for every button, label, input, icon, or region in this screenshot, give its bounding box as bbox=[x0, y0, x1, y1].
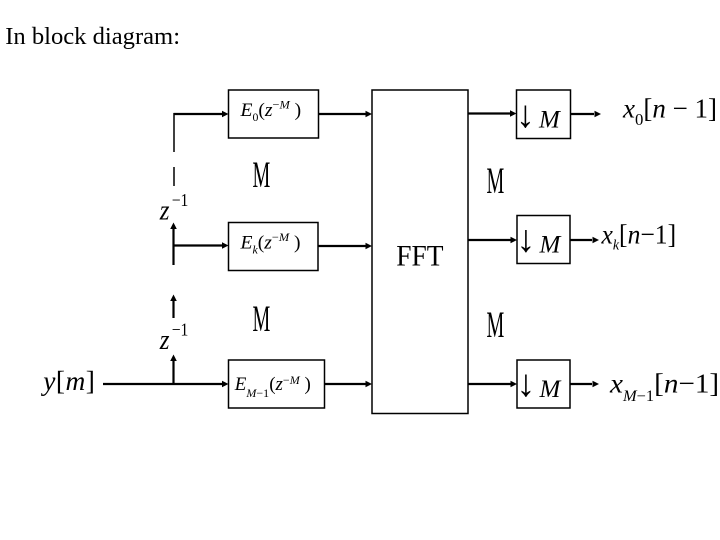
svg-text:M: M bbox=[487, 162, 505, 202]
wire: Ek feed horizontal bbox=[174, 242, 229, 249]
svg-text:M: M bbox=[253, 156, 271, 196]
wire: E0 to FFT bbox=[319, 111, 373, 118]
wire: FFT to downsample (row 1) bbox=[468, 110, 517, 117]
wire: FFT to downsample (row 3) bbox=[468, 381, 517, 388]
svg-text:M: M bbox=[539, 376, 562, 403]
wire: corner from vertical up to E0 feed bbox=[173, 113, 175, 152]
wire: input y[m] to EM-1 bbox=[103, 381, 229, 388]
svg-text:Ek(z−M ): Ek(z−M ) bbox=[239, 230, 300, 256]
wire: EM-1 to FFT bbox=[325, 381, 373, 388]
svg-text:y[m]: y[m] bbox=[40, 366, 95, 396]
svg-text:In block diagram:: In block diagram: bbox=[5, 23, 180, 50]
svg-text:M: M bbox=[253, 300, 271, 340]
svg-text:xk[n−1]: xk[n−1] bbox=[601, 219, 677, 254]
block downsample M (row 3) bbox=[517, 360, 571, 408]
svg-text:↓: ↓ bbox=[516, 94, 535, 136]
wire: Ek to FFT bbox=[318, 243, 372, 250]
svg-text:M: M bbox=[539, 232, 562, 259]
block EM-1(z^-M) bbox=[229, 360, 325, 408]
svg-text:↓: ↓ bbox=[517, 219, 536, 261]
wire: output arrow (row 2) bbox=[570, 237, 599, 244]
block FFT bbox=[372, 90, 468, 414]
arrow up to z^-1 (upper) bbox=[170, 223, 177, 230]
wire: FFT to downsample (row 2) bbox=[468, 237, 517, 244]
wire: E0 feed horizontal bbox=[174, 111, 229, 118]
svg-text:M: M bbox=[538, 107, 561, 134]
arrow up from input junction to z^-1 (lower) bbox=[170, 355, 177, 385]
svg-text:M: M bbox=[487, 306, 505, 346]
wire: output arrow (row 1) bbox=[571, 111, 602, 118]
block Ek(z^-M) bbox=[229, 223, 319, 271]
block E0(z^-M) bbox=[229, 90, 319, 138]
svg-text:↓: ↓ bbox=[517, 363, 536, 405]
block downsample M (row 1) bbox=[516, 90, 571, 139]
arrow up from z^-1 (lower) toward Ek branch bbox=[170, 295, 177, 319]
block downsample M (row 2) bbox=[517, 216, 571, 264]
wire: dashed segment above z^-1 (upper) bbox=[173, 151, 175, 186]
svg-text:E0(z−M ): E0(z−M ) bbox=[239, 98, 301, 124]
wire: output arrow (row 3) bbox=[570, 381, 599, 388]
wire: vertical stub through Ek junction bbox=[172, 229, 174, 265]
svg-text:FFT: FFT bbox=[396, 239, 444, 272]
